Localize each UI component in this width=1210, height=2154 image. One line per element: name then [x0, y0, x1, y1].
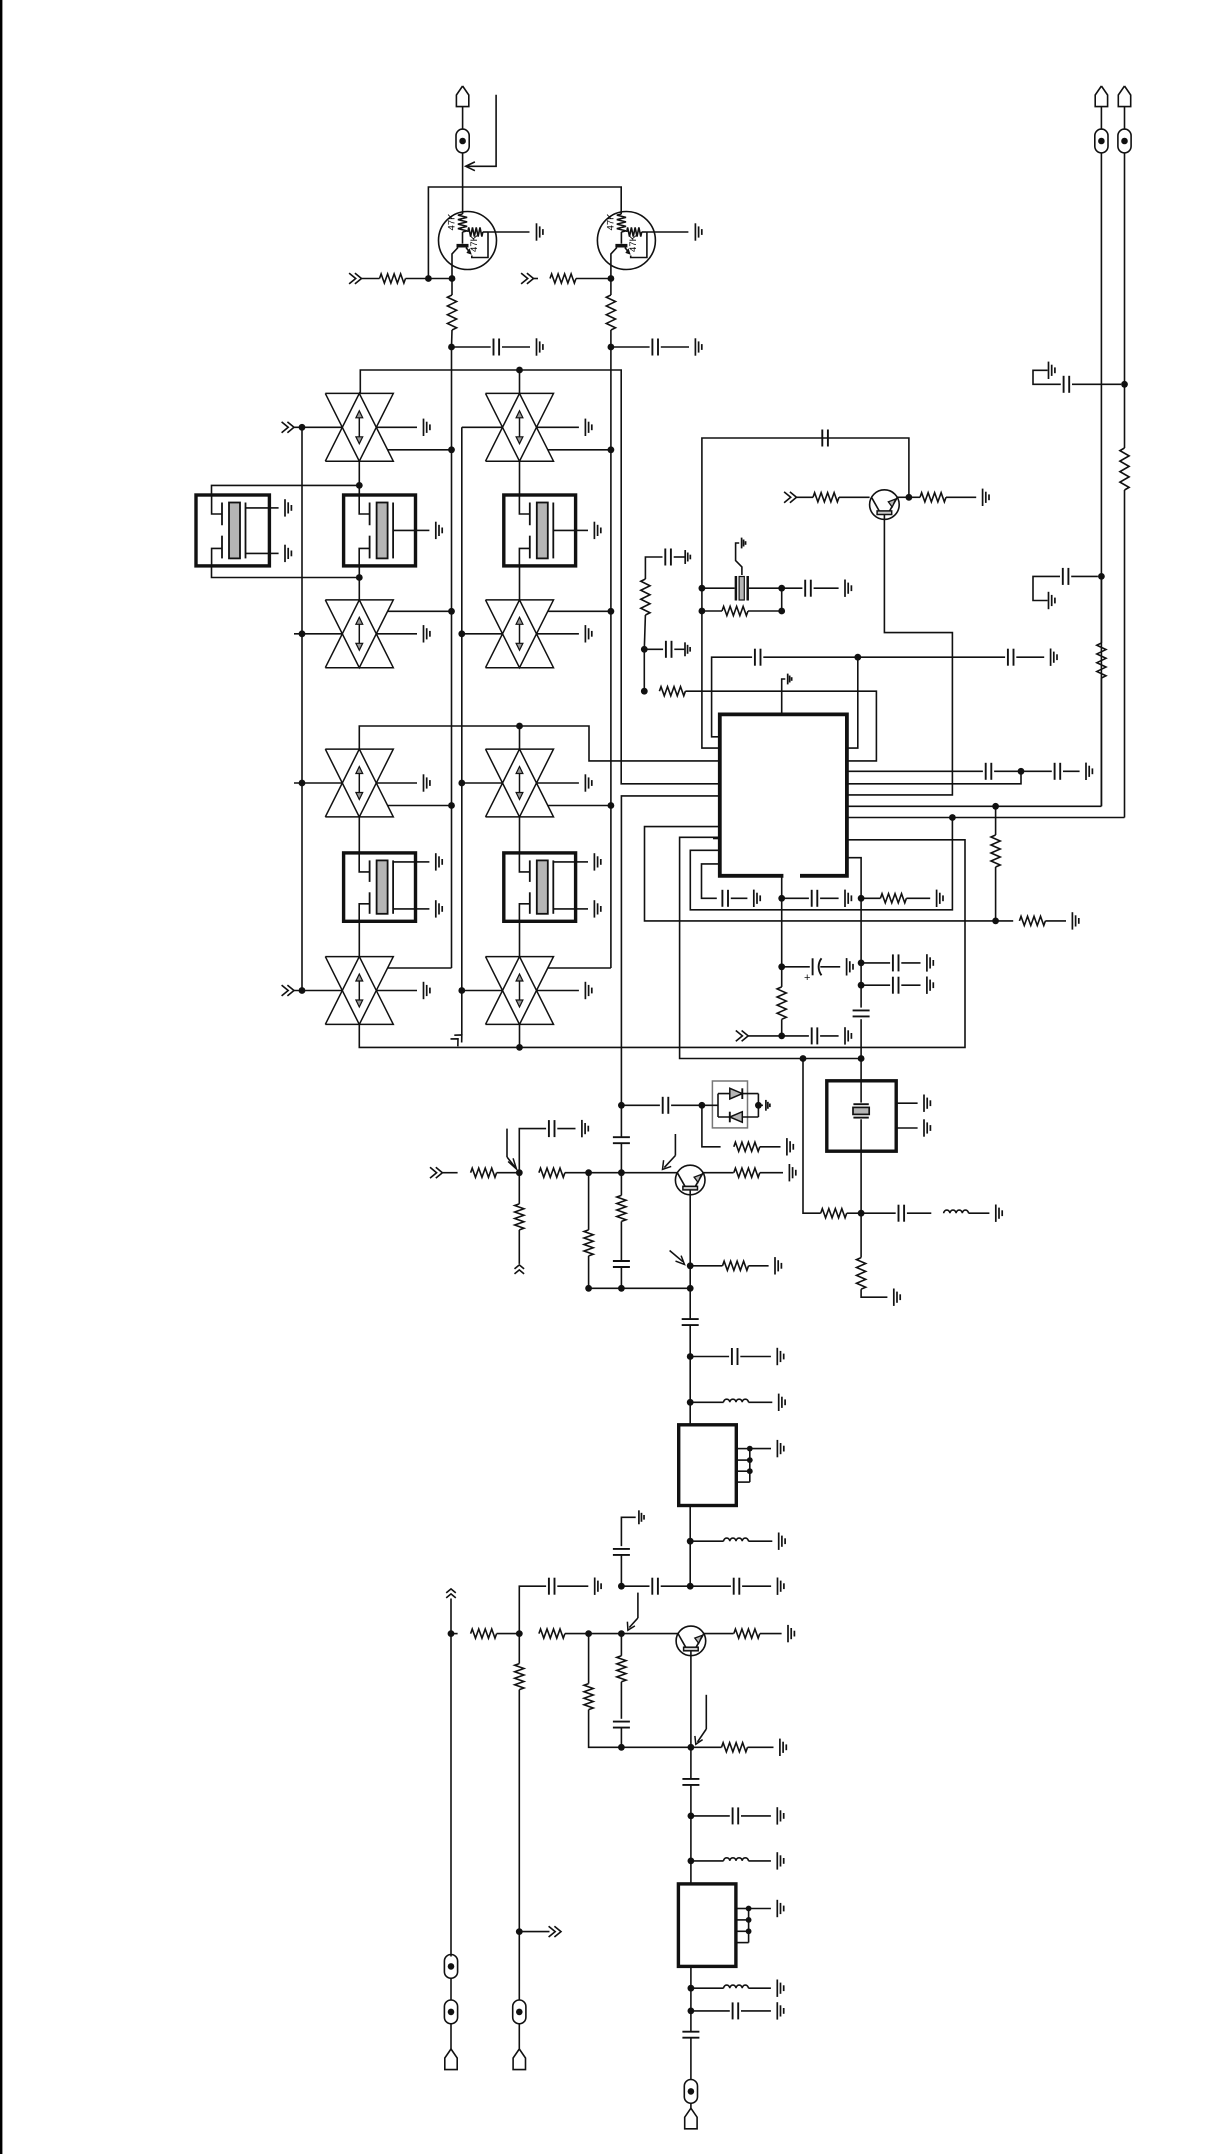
port input 4	[287, 985, 294, 996]
port input 2	[527, 273, 534, 284]
ground	[923, 1095, 925, 1112]
port input 8	[436, 1167, 443, 1178]
wire	[451, 450, 453, 611]
junction	[299, 987, 306, 994]
filter FL1 (IF filter)	[679, 1425, 737, 1506]
capacitor C18	[861, 1212, 896, 1214]
ground	[1085, 763, 1087, 780]
inductor L4	[691, 1860, 724, 1862]
wire	[861, 1289, 887, 1297]
wire	[689, 1357, 691, 1403]
ground	[995, 1205, 997, 1222]
ground	[923, 1119, 925, 1136]
wire	[1100, 678, 1102, 806]
junction	[516, 1630, 523, 1637]
junction	[992, 918, 999, 925]
connector CN4 pin oval	[513, 2000, 526, 2024]
junction	[687, 1538, 694, 1545]
resistor R28	[704, 1633, 734, 1635]
junction	[458, 630, 465, 637]
resistor R2b	[610, 279, 612, 296]
trap T1 (dual-diode bowtie)	[325, 393, 393, 461]
wire tap	[548, 805, 611, 807]
wire tap	[388, 610, 452, 612]
ground	[684, 642, 686, 656]
resistor R17	[518, 1173, 520, 1204]
capacitor C15	[861, 962, 890, 964]
wire	[896, 1102, 917, 1104]
resistor R25	[539, 1629, 565, 1638]
junction	[778, 895, 785, 902]
wire	[620, 1221, 622, 1261]
wire tap	[548, 449, 611, 451]
transistor Q1 (digital, built-in 47K resistors)	[439, 212, 497, 270]
junction	[618, 1169, 625, 1176]
transistor Q5	[870, 490, 900, 520]
wire tap	[388, 805, 452, 807]
junction	[608, 275, 615, 282]
IC bottom pin	[781, 876, 783, 899]
port input 7	[742, 1031, 749, 1042]
junction	[1121, 381, 1128, 388]
capacitor C14	[782, 1035, 809, 1037]
wire	[358, 817, 360, 853]
wire	[797, 496, 814, 498]
resistor R14	[860, 1213, 862, 1257]
capacitor C29 series	[613, 1721, 630, 1723]
wire	[969, 1212, 990, 1214]
wire	[451, 611, 453, 805]
wire	[1124, 490, 1126, 818]
junction	[949, 814, 956, 821]
junction	[688, 1813, 695, 1820]
resistor R23	[451, 1633, 458, 1635]
wire	[589, 1256, 691, 1288]
wire	[839, 496, 870, 498]
junction	[608, 802, 615, 809]
ground	[788, 1164, 790, 1181]
port input 9 (from top)	[446, 1589, 456, 1593]
wire	[462, 633, 502, 635]
transistor Q2 (digital, built-in 47K resistors)	[597, 212, 655, 270]
transistor Q3	[675, 1165, 705, 1195]
junction	[356, 482, 363, 489]
junction	[516, 1928, 523, 1935]
capacitor C28	[548, 1578, 550, 1595]
ground	[1048, 592, 1050, 609]
bus top bank1	[360, 370, 720, 784]
connector CN6 flag	[1118, 86, 1130, 107]
adjust arrow	[705, 1695, 707, 1729]
wire	[860, 1151, 862, 1213]
junction	[688, 1985, 695, 1992]
junction	[858, 895, 865, 902]
wire	[690, 2011, 692, 2032]
ground	[779, 1739, 781, 1756]
wire	[690, 1966, 692, 1988]
junction	[425, 275, 432, 282]
connector CN3 flag	[445, 2049, 457, 2070]
IC right pin 806 wire	[847, 805, 1102, 807]
wire Q2 chain down	[610, 347, 612, 450]
capacitor C33 series	[682, 2031, 699, 2033]
port output B arrow	[519, 1931, 549, 1933]
IC left pin 837 loop	[680, 837, 862, 1058]
filter CF-C2	[504, 853, 576, 921]
svg-text:+: +	[804, 972, 810, 984]
capacitor C23 series	[682, 1318, 699, 1320]
junction	[458, 780, 465, 787]
capacitor C16	[861, 984, 890, 986]
IC left pin 864 loop	[702, 864, 720, 898]
left bus x=462	[461, 427, 463, 1035]
capacitor C27	[690, 1585, 731, 1587]
wire	[610, 611, 612, 805]
ground	[778, 1394, 780, 1411]
junction	[299, 630, 306, 637]
capacitor C32	[691, 2010, 730, 2012]
ground	[423, 625, 425, 642]
port input 1	[355, 273, 362, 284]
trap T7	[325, 957, 393, 1025]
wire tap	[548, 610, 611, 612]
capacitor C7 top	[645, 557, 662, 579]
resistor R29	[691, 1746, 722, 1748]
junction	[585, 1285, 592, 1292]
trap T3	[325, 600, 393, 668]
ground	[776, 1980, 778, 1997]
ground	[776, 2002, 778, 2019]
junction	[516, 367, 523, 374]
junction	[618, 1583, 625, 1590]
junction	[516, 1044, 523, 1051]
wire	[518, 1932, 520, 2000]
wire	[534, 278, 539, 280]
IC U1 (FM/AM tuner IC)	[720, 714, 847, 875]
trap T4	[486, 600, 554, 668]
junction	[449, 275, 456, 282]
resistor R7	[641, 579, 650, 615]
resistor R10 vertical	[995, 806, 997, 835]
capacitor C24	[690, 1356, 729, 1358]
wire	[620, 1555, 622, 1586]
wire	[643, 649, 645, 691]
ground	[584, 419, 586, 436]
junction	[699, 1102, 706, 1109]
filter CF-C1	[504, 495, 576, 566]
wire	[620, 1682, 622, 1719]
wire	[685, 691, 876, 761]
junction	[618, 1102, 625, 1109]
ground	[787, 1625, 789, 1642]
ground	[776, 1348, 778, 1365]
wire	[1045, 920, 1066, 922]
port input 6	[790, 492, 797, 503]
capacitor C13 electrolytic	[782, 966, 810, 968]
svg-text:47K: 47K	[447, 213, 458, 231]
capacitor C11	[721, 890, 723, 907]
ground	[776, 1852, 778, 1869]
wire	[620, 1267, 622, 1288]
port output A	[515, 1265, 525, 1269]
wire	[589, 1710, 691, 1748]
connector CN5 pin oval	[1095, 129, 1108, 153]
IC right pin 771 caps	[847, 770, 983, 772]
junction	[585, 1169, 592, 1176]
junction	[458, 987, 465, 994]
wire	[294, 426, 342, 428]
wire x=621 lower	[621, 796, 719, 1105]
junction	[618, 1630, 625, 1637]
resistor R1b	[451, 279, 453, 296]
wire arrow into CN1 line	[467, 95, 496, 167]
wire	[690, 1988, 692, 2011]
junction	[687, 1399, 694, 1406]
resistor R30	[1124, 384, 1126, 448]
resistor R1a	[380, 274, 406, 283]
inductor L3	[690, 1540, 723, 1542]
connector CN1 flag	[456, 86, 468, 107]
resistor R22	[690, 1265, 722, 1267]
wire	[519, 817, 521, 853]
ground	[982, 489, 984, 506]
page edge bar	[0, 0, 2, 2154]
ground	[844, 1027, 846, 1044]
IC left pin stub	[713, 838, 720, 840]
IC right pin 784 wire	[847, 771, 1021, 784]
resistor R27	[588, 1634, 590, 1684]
wire	[497, 1172, 520, 1174]
wire	[377, 426, 417, 428]
junction	[608, 344, 615, 351]
junction	[688, 1744, 695, 1751]
junction	[448, 802, 455, 809]
capacitor C20	[548, 1120, 550, 1137]
resistor R15	[702, 1105, 721, 1147]
connector CN2 pin oval	[684, 2080, 697, 2104]
adjust arrow	[506, 1129, 508, 1157]
resistor R2a	[550, 274, 576, 283]
capacitor C21 series x621	[613, 1136, 630, 1138]
wire	[860, 1019, 862, 1081]
resistor R31	[1100, 576, 1102, 643]
inductor L2	[690, 1401, 723, 1403]
wire	[610, 450, 612, 611]
ground IC top	[782, 679, 786, 714]
wire	[450, 2024, 452, 2049]
junction	[448, 344, 455, 351]
resistor R20	[588, 1173, 590, 1230]
wire	[689, 1266, 691, 1289]
trap T6	[486, 749, 554, 817]
wire	[462, 107, 464, 130]
wire	[589, 1633, 622, 1635]
wire	[897, 496, 909, 498]
wire	[497, 1633, 520, 1635]
junction	[858, 960, 865, 967]
ground	[1048, 362, 1050, 379]
resistor R11	[861, 897, 880, 899]
ground	[777, 1578, 779, 1595]
wire	[565, 1633, 589, 1635]
wire	[406, 278, 453, 280]
connector CN3 pin oval	[444, 1955, 457, 1979]
left bus x=302	[301, 427, 303, 990]
junction	[699, 585, 706, 592]
ground	[926, 954, 928, 971]
wire	[518, 1690, 520, 1932]
adjust arrow	[674, 1134, 676, 1156]
junction	[299, 780, 306, 787]
junction	[585, 1630, 592, 1637]
filter FL2	[678, 1884, 736, 1967]
connector CN3 pin oval 2	[444, 2000, 457, 2024]
junction	[858, 982, 865, 989]
wire	[781, 898, 783, 967]
wire	[519, 1129, 546, 1173]
diode pair D1/D2	[712, 1081, 747, 1128]
row y=1586	[621, 1585, 649, 1587]
wire	[451, 806, 453, 969]
resistor R6 parallel	[701, 588, 703, 611]
wire	[896, 1127, 917, 1129]
ground cap branch	[638, 1510, 640, 1524]
wire	[450, 1599, 452, 1957]
crystal box X2	[827, 1081, 896, 1151]
adjust arrow	[670, 1251, 683, 1262]
junction	[854, 654, 861, 661]
junction	[858, 1210, 865, 1217]
junction	[687, 1285, 694, 1292]
resistor R19	[620, 1173, 622, 1196]
wire Q5 base	[847, 514, 953, 795]
bus bank2 bottom	[359, 840, 965, 1048]
resistor R12	[781, 967, 783, 987]
capacitor C8	[644, 648, 663, 650]
resistor R8	[644, 690, 646, 692]
wire	[610, 330, 612, 347]
junction	[687, 1262, 694, 1269]
wire tap	[388, 449, 452, 451]
capacitor C12	[782, 897, 809, 899]
wire	[644, 615, 645, 649]
capacitor C22 series	[613, 1260, 630, 1262]
transistor Q4	[676, 1626, 706, 1656]
connector CN2 flag	[685, 2108, 697, 2129]
junction	[641, 646, 648, 653]
ground	[1050, 649, 1052, 666]
ground	[536, 338, 538, 355]
filter CF-B1	[358, 485, 360, 495]
capacitor C2a	[611, 346, 650, 348]
wire	[462, 153, 464, 214]
ground	[774, 1257, 776, 1274]
ground	[753, 890, 755, 907]
wire Q3 base	[689, 1190, 691, 1266]
wire	[1100, 153, 1102, 806]
wire	[451, 330, 454, 347]
trap T2	[486, 393, 554, 461]
capacitor C5a feedback	[702, 438, 909, 588]
wire	[518, 1230, 520, 1264]
resistor R5b	[909, 496, 920, 498]
capacitor C25 series	[613, 1548, 630, 1550]
capacitor C30 series	[682, 1778, 699, 1780]
inductor L5	[691, 1987, 724, 1989]
wire	[519, 1586, 546, 1633]
junction	[618, 1285, 625, 1292]
wire	[610, 806, 612, 969]
junction	[356, 574, 363, 581]
wire	[748, 1035, 782, 1037]
ground	[584, 625, 586, 642]
wire	[690, 1861, 692, 1884]
capacitor C31	[691, 1815, 730, 1817]
connector CN1 pin oval	[456, 129, 469, 153]
wire	[689, 1541, 691, 1586]
crystal X1 center pin to ground	[736, 543, 742, 575]
resistor R21	[703, 1172, 734, 1174]
wire	[621, 1633, 678, 1635]
adjust arrow	[637, 1593, 639, 1618]
IC right pin 858 wire	[847, 858, 861, 899]
wire	[690, 1747, 692, 1779]
wire	[1124, 153, 1126, 384]
wire	[620, 1105, 622, 1137]
ground	[594, 1578, 596, 1595]
wire	[576, 278, 611, 280]
wire Q4 base	[690, 1651, 692, 1748]
capacitor C34 jog	[1072, 383, 1121, 385]
wire	[946, 496, 976, 498]
junction	[755, 1102, 762, 1109]
svg-text:47K: 47K	[469, 234, 480, 252]
crystal X1 (3-terminal resonator)	[702, 587, 735, 589]
wire	[519, 370, 521, 393]
junction	[688, 1858, 695, 1865]
port input 3	[287, 422, 294, 433]
wire tap	[388, 967, 452, 969]
resistor R24	[518, 1634, 520, 1664]
wire	[442, 1172, 457, 1174]
wire	[519, 1024, 521, 1047]
junction	[299, 424, 306, 431]
wire	[362, 278, 380, 280]
ground	[778, 1533, 780, 1550]
junction	[641, 688, 648, 695]
wire ovals gap	[450, 1978, 452, 1999]
wire	[690, 2103, 692, 2108]
ground	[936, 890, 938, 907]
ground	[926, 977, 928, 994]
junction	[618, 1744, 625, 1751]
junction	[448, 608, 455, 615]
wire	[621, 1172, 677, 1174]
junction	[778, 1033, 785, 1040]
ground	[776, 1807, 778, 1824]
capacitor C10	[858, 656, 1005, 658]
port input 5 (angled)	[450, 1031, 465, 1046]
svg-text:47K: 47K	[628, 234, 639, 252]
inductor L1	[944, 1210, 969, 1213]
junction	[858, 1055, 865, 1062]
wire	[565, 1172, 589, 1174]
wire	[518, 2024, 520, 2049]
capacitor C6	[782, 587, 803, 589]
wire	[519, 461, 521, 495]
wire	[690, 1816, 692, 1861]
ground	[893, 1289, 895, 1306]
